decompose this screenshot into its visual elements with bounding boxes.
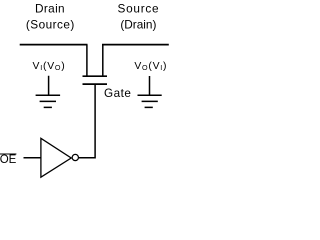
svg-text:VO(VI): VO(VI) [134, 61, 167, 72]
svg-text:OE: OE [0, 154, 17, 166]
svg-text:(Drain): (Drain) [120, 17, 156, 31]
svg-text:VI(VO): VI(VO) [33, 61, 66, 72]
svg-text:Drain: Drain [35, 2, 65, 16]
svg-text:Gate: Gate [104, 87, 131, 100]
svg-text:Source: Source [117, 2, 159, 16]
svg-text:(Source): (Source) [26, 17, 75, 31]
